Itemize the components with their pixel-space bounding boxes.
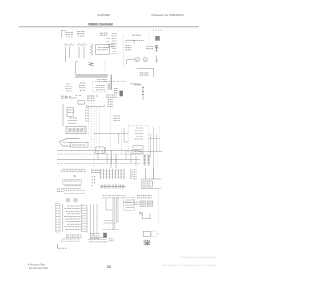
pin field right pair (131, 169, 133, 179)
dash-dot wire bottom left (103, 229, 118, 231)
dashed junction box (92, 82, 107, 92)
power plug dark blob (120, 91, 123, 97)
dash-dot neutral wire (104, 80, 127, 82)
bus wire 4 (57, 163, 140, 165)
bus wire 2 (57, 153, 140, 155)
wire dotted pin column (142, 153, 144, 166)
relay block K1 (124, 198, 135, 211)
bottom annotation text (61, 239, 80, 241)
switch contacts row 2 (78, 43, 87, 44)
connector J1 block (155, 36, 160, 41)
svg-text:* Non-Illustrated Parts: * Non-Illustrated Parts (28, 266, 49, 270)
dispenser module box (142, 181, 153, 187)
left harness wires (107, 39, 110, 48)
svg-text:23: 23 (107, 265, 111, 269)
icemaker fill tube cluster (108, 100, 114, 107)
svg-text:Publication No. 5995438372: Publication No. 5995438372 (152, 13, 185, 17)
bus wire 3 (57, 158, 140, 160)
compressor label (140, 73, 149, 75)
thermostat mark (89, 63, 94, 66)
wire below dispenser (141, 188, 161, 190)
svg-text:# Functional Parts: # Functional Parts (28, 262, 46, 266)
wire riser F dashed (110, 104, 112, 152)
wire dotted riser D (96, 107, 98, 152)
dispenser control rows (135, 128, 144, 139)
freezer light switch with label (66, 32, 73, 34)
label text small (61, 96, 67, 98)
bus wire 1 (57, 149, 140, 151)
ground wires double (107, 84, 109, 90)
defrost timer box (126, 40, 134, 43)
wire dashed drop (104, 60, 106, 72)
cord bottom marks (106, 95, 117, 97)
main wiring harness terminal strip (75, 75, 108, 78)
mark x (74, 175, 76, 177)
right risers from legend (86, 206, 88, 234)
plug marks (114, 89, 119, 93)
wire turn into box (124, 128, 128, 142)
wire drop left (76, 62, 79, 75)
evap fan motor (143, 57, 148, 62)
defrost thermostat cluster (65, 84, 71, 91)
aux cluster (114, 116, 121, 121)
wire long to right rail (139, 150, 162, 152)
legend box (62, 204, 64, 232)
compressor circuit top wire (137, 68, 154, 77)
legend bottom text (66, 235, 82, 237)
hook wire (143, 214, 151, 219)
marks right of legend bottom (90, 234, 100, 239)
connector header labels (61, 169, 86, 171)
approx mark (139, 212, 143, 215)
ground symbol hook (58, 244, 67, 248)
row of splice symbols (66, 96, 99, 97)
wire riser E (99, 107, 101, 152)
left rail wire (62, 104, 64, 127)
bracket right (156, 57, 158, 63)
wire dotted column (148, 31, 150, 54)
junction box left of bus (96, 147, 104, 154)
overload protector (156, 46, 158, 52)
junction box small (78, 101, 84, 105)
power cord wire (110, 75, 112, 91)
cluster right of text row (137, 196, 152, 198)
water valve body (143, 231, 151, 236)
wire right rail C (156, 134, 158, 151)
legend leader lines (82, 206, 87, 232)
icemaker mold heater boxes (140, 201, 146, 206)
wire dashed riser A (87, 100, 89, 135)
run capacitor wire (130, 83, 140, 85)
wire right rail dotted lower (157, 151, 159, 170)
svg-text:GLHS67EEP: GLHS67EEP (97, 13, 110, 17)
connector pin field (101, 169, 124, 179)
connector pin column 2 (147, 155, 150, 165)
wire drops from switches (65, 47, 67, 62)
refrigerator light switch with label (77, 32, 84, 34)
connector pin column 1 (143, 155, 146, 165)
wire bundle risers (106, 197, 118, 230)
switch stack lower (68, 118, 77, 123)
legend rows (64, 206, 81, 229)
text row mid (102, 196, 126, 198)
scatter symbols (64, 191, 85, 194)
wire dashed riser B (90, 100, 92, 150)
switch contacts row 1 (65, 43, 75, 44)
colon column (92, 176, 95, 186)
bus vertical taps (97, 150, 99, 159)
wire stub top left (62, 30, 67, 38)
water valve coil dashed circle (151, 231, 157, 237)
bottom right cluster text (88, 238, 107, 242)
dispenser control dashed box (128, 126, 149, 155)
left control cluster (63, 180, 82, 184)
fuse symbols row (100, 185, 125, 189)
svg-text:WIRING DIAGRAM: WIRING DIAGRAM (88, 22, 113, 26)
thermostat column labels (111, 33, 117, 53)
defrost limit switch (60, 138, 80, 146)
wire color legend strip (55, 204, 60, 233)
timer motor box (71, 142, 89, 147)
lamp L1 label text (100, 33, 107, 35)
defrost timer label (132, 34, 141, 36)
wire branch right (149, 137, 160, 139)
fan labels (126, 46, 132, 50)
wire dashed riser C (93, 100, 95, 167)
label small left (57, 189, 64, 191)
lamp circle 1 (66, 199, 70, 203)
relay marks (134, 84, 141, 86)
index dots top right (152, 29, 155, 32)
staircase joins (104, 210, 115, 223)
wire riser dashed mid (120, 128, 122, 154)
dispenser inner box (133, 146, 143, 154)
terminal board TB1 (66, 127, 86, 134)
terminal cluster top (87, 96, 94, 100)
wire right rail dashed (158, 126, 160, 151)
dotted leader row upper (180, 256, 216, 258)
connector J2 (155, 45, 158, 47)
control box ADC (96, 45, 110, 55)
bracket node (156, 56, 158, 61)
wire horizontal (87, 104, 104, 106)
wire vertical dashed (123, 35, 125, 68)
wire right rail B (153, 127, 155, 179)
right rail dashed lower (157, 190, 159, 223)
condenser fan motor (135, 57, 140, 62)
header rule (19, 26, 199, 28)
mullion heater marks (85, 108, 89, 121)
harness下 marks (97, 80, 107, 82)
harness wires lower middle (111, 156, 136, 168)
evaporator fan cluster (79, 83, 86, 90)
dotted leader row lower (162, 264, 216, 266)
ground lug dark (103, 233, 107, 238)
fan wire left (127, 60, 135, 64)
door switch stack box (67, 108, 73, 117)
defrost heater zigzag (90, 44, 93, 56)
compressor drop wire (142, 86, 144, 100)
lamp circle 2 (74, 199, 78, 203)
wire right rail A (149, 134, 151, 159)
water valve star cluster (144, 240, 151, 246)
wires to dispenser (141, 168, 161, 179)
wire into dispenser box (94, 133, 128, 144)
